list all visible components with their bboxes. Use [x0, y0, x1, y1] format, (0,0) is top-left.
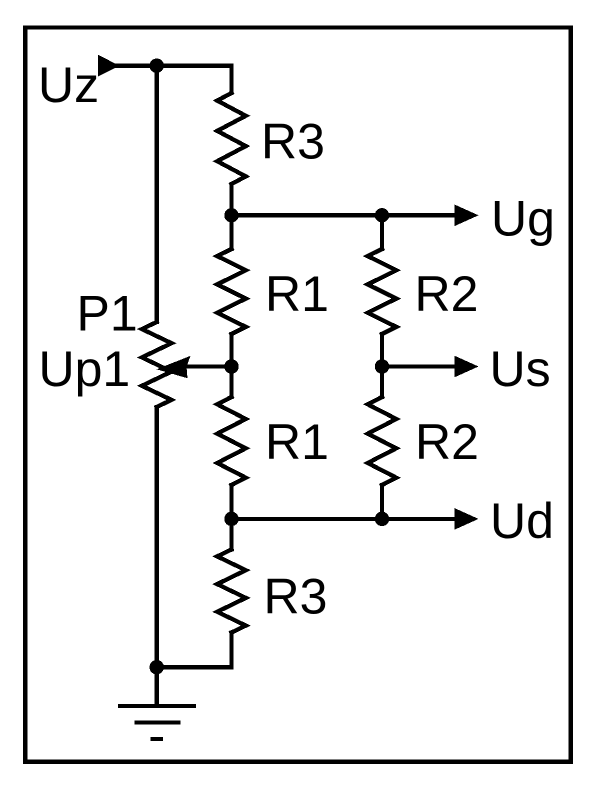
wire left column upper [155, 66, 159, 322]
wire R3 to Ug node [229, 184, 233, 249]
svg-text:Uz: Uz [38, 57, 99, 113]
output arrow Us [455, 356, 479, 378]
resistor R1 bottom [217, 397, 246, 485]
junction wiper node [224, 359, 238, 373]
output arrow Ug [455, 205, 479, 227]
wire R3 bottom to ground rail [229, 633, 233, 668]
junction R2 at Ud [375, 512, 389, 526]
wire R1 to wiper node [229, 334, 233, 397]
junction ground rail [150, 660, 164, 674]
wire Us node [382, 364, 458, 368]
ground [120, 667, 194, 739]
wire left column lower [155, 407, 159, 667]
junction R3/R1 at Ug [224, 208, 238, 222]
resistor R2 bottom [368, 367, 397, 519]
junction R2/R2 at Us [375, 359, 389, 373]
svg-text:Up1: Up1 [39, 341, 131, 397]
junction R2 at Ug [375, 208, 389, 222]
resistor R2 top [368, 215, 397, 366]
input arrow Uz [98, 55, 120, 77]
svg-text:Us: Us [490, 341, 551, 397]
wiper arrow of P1 [188, 364, 232, 368]
svg-text:P1: P1 [77, 286, 138, 342]
svg-text:Ud: Ud [490, 493, 554, 549]
junction Uz / P1 top [150, 58, 164, 72]
wire R1 to R3 bottom [229, 485, 233, 550]
svg-text:R1: R1 [265, 414, 329, 470]
svg-text:R2: R2 [415, 266, 479, 322]
wire ground rail [157, 665, 232, 669]
resistor R3 top [217, 93, 246, 184]
svg-text:R2: R2 [415, 414, 479, 470]
junction R1/R3 at Ud [224, 512, 238, 526]
svg-text:R3: R3 [261, 114, 325, 170]
resistor R1 top [217, 249, 246, 334]
wire Ug node [232, 213, 459, 217]
output arrow Ud [455, 508, 479, 530]
potentiometer P1 [142, 322, 172, 407]
svg-text:R3: R3 [264, 569, 328, 625]
wire Uz node top [117, 66, 232, 93]
svg-text:Ug: Ug [491, 190, 555, 246]
svg-text:R1: R1 [265, 266, 329, 322]
resistor R3 bottom [217, 550, 246, 633]
wire Ud node [232, 517, 459, 521]
